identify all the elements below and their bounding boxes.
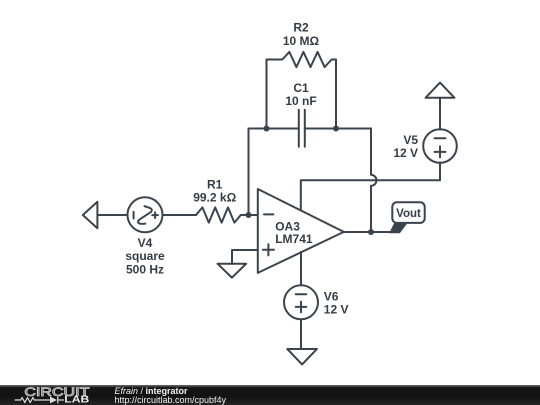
svg-text:C1: C1 bbox=[293, 81, 309, 95]
wire R1 to op-amp minus input bbox=[241, 214, 258, 216]
svg-text:99.2 kΩ: 99.2 kΩ bbox=[193, 191, 236, 205]
svg-text:square: square bbox=[125, 249, 165, 263]
wire op-amp output bbox=[344, 231, 390, 233]
node flag Vout bbox=[389, 202, 425, 233]
CircuitLab logo bbox=[0, 385, 110, 405]
svg-text:V4: V4 bbox=[138, 236, 153, 250]
source V4 bbox=[128, 197, 163, 232]
input terminal triangle bbox=[83, 202, 98, 228]
wire V4 to R1 bbox=[163, 214, 197, 216]
svg-text:V6: V6 bbox=[324, 289, 339, 303]
svg-text:12 V: 12 V bbox=[393, 146, 418, 160]
VCC arrow bbox=[426, 83, 455, 98]
wire positive supply rail bbox=[301, 163, 440, 211]
wire V6 to ground bbox=[300, 319, 302, 349]
ground at plus input bbox=[218, 264, 247, 278]
svg-text:R1: R1 bbox=[207, 178, 223, 192]
node junction minus input bbox=[246, 212, 252, 218]
op-amp OA3 bbox=[258, 189, 344, 273]
wire feedback right vertical with hop bbox=[371, 129, 376, 233]
svg-text:10 nF: 10 nF bbox=[285, 94, 316, 108]
wire op-amp bottom pin to V6 bbox=[300, 252, 302, 285]
source V6 bbox=[284, 285, 318, 319]
svg-text:Vout: Vout bbox=[396, 208, 421, 220]
footer credit text bbox=[115, 387, 188, 396]
wire V5 to VCC arrow bbox=[439, 98, 441, 130]
svg-text:LM741: LM741 bbox=[275, 232, 313, 246]
svg-text:12 V: 12 V bbox=[324, 303, 349, 317]
capacitor C1 bbox=[299, 110, 305, 147]
svg-text:V5: V5 bbox=[403, 133, 418, 147]
svg-text:500 Hz: 500 Hz bbox=[126, 262, 164, 276]
resistor R2 bbox=[267, 52, 337, 129]
source V5 bbox=[423, 129, 457, 163]
svg-text:R2: R2 bbox=[293, 21, 309, 35]
ground below V6 bbox=[287, 349, 317, 364]
wire C1 left bbox=[249, 128, 299, 130]
wire terminal to V4 bbox=[97, 214, 127, 216]
svg-text:LAB: LAB bbox=[64, 395, 89, 405]
resistor R1 bbox=[196, 207, 241, 222]
node junction left of C1 bbox=[264, 126, 270, 132]
wire feedback left vertical bbox=[248, 129, 250, 216]
wire C1 right bbox=[305, 128, 371, 130]
node junction right of C1 bbox=[333, 126, 339, 132]
wire plus input to ground bbox=[232, 250, 258, 264]
svg-text:10 MΩ: 10 MΩ bbox=[283, 34, 320, 48]
footer bar bbox=[0, 385, 540, 405]
node junction output bbox=[368, 229, 374, 235]
